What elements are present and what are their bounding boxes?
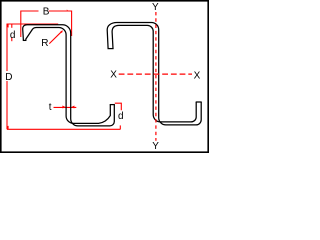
svg-text:d: d bbox=[118, 111, 124, 122]
svg-text:R: R bbox=[41, 38, 48, 49]
svg-text:d: d bbox=[10, 30, 16, 41]
svg-text:X: X bbox=[194, 71, 201, 82]
svg-text:D: D bbox=[5, 72, 12, 83]
svg-text:Y: Y bbox=[152, 141, 159, 152]
svg-text:Y: Y bbox=[152, 2, 159, 13]
svg-text:t: t bbox=[49, 102, 52, 113]
svg-text:X: X bbox=[110, 70, 117, 81]
svg-text:B: B bbox=[43, 7, 50, 18]
